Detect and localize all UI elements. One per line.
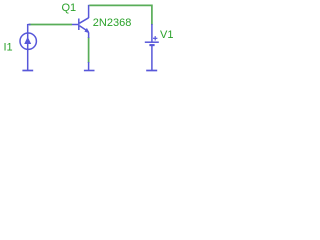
svg-text:Q1: Q1 <box>62 2 77 14</box>
ground V1 <box>146 70 157 72</box>
transistor Q1 2N2368 <box>72 5 90 38</box>
wire base: I1 top to Q1 base <box>29 24 72 26</box>
svg-text:V1: V1 <box>160 29 173 41</box>
ground Q1 emitter <box>84 62 95 71</box>
svg-text:2N2368: 2N2368 <box>93 17 132 29</box>
wire collector top to V1 <box>89 5 152 25</box>
wire emitter to ground <box>88 37 90 63</box>
plus polarity mark <box>153 36 157 40</box>
current source I1 <box>20 24 36 70</box>
voltage source V1 (battery) <box>145 24 159 70</box>
svg-text:I1: I1 <box>4 41 13 53</box>
ground I1 <box>22 70 33 72</box>
